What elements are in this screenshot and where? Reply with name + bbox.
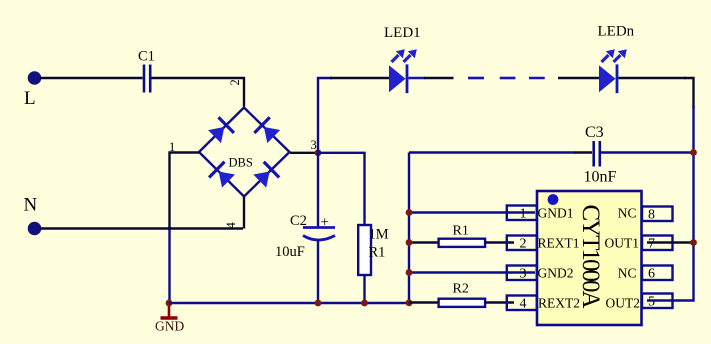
svg-text:C2: C2	[290, 213, 307, 229]
wire R1 to ground rail	[363, 275, 365, 303]
svg-text:NC: NC	[618, 266, 637, 281]
svg-text:C3: C3	[585, 124, 604, 141]
svg-text:+: +	[321, 215, 329, 231]
wire C3 to right bus	[601, 151, 694, 153]
junction bus-pin3	[406, 269, 413, 276]
svg-text:8: 8	[648, 208, 655, 223]
capacitor C2	[303, 228, 335, 241]
diode D-topright of DBS	[254, 117, 281, 144]
junction bus-pin1	[406, 209, 413, 216]
svg-text:3: 3	[311, 138, 317, 152]
pin box 1	[507, 206, 537, 221]
wire L to C1	[40, 77, 143, 79]
junction node 3	[315, 149, 322, 156]
wire R2 to pin 4	[485, 301, 514, 303]
diode D-bottomleft of DBS	[209, 162, 236, 189]
pin box 7	[642, 236, 673, 251]
terminal N	[28, 222, 42, 236]
wire C2 to ground rail	[317, 240, 319, 303]
wire pin 3 row	[409, 271, 535, 273]
wire ground rail	[169, 302, 409, 304]
wire dashed LED string	[468, 77, 545, 80]
svg-text:GND1: GND1	[538, 206, 574, 221]
wire C3 row left	[409, 151, 575, 153]
LED LED1	[389, 49, 417, 93]
capacitor C1	[144, 65, 150, 93]
pin box 8	[642, 207, 673, 222]
pin 1 marker dot	[548, 194, 559, 205]
wire node 3 down to C2	[317, 153, 319, 227]
svg-text:C1: C1	[138, 49, 155, 65]
junction C3-right bus	[690, 149, 697, 156]
junction left bus-ground rail	[406, 299, 413, 306]
svg-text:OUT1: OUT1	[605, 236, 640, 251]
ground GND	[161, 303, 178, 318]
resistor R2 horizontal	[439, 299, 486, 307]
svg-text:OUT2: OUT2	[606, 296, 641, 311]
junction bus-pin2	[406, 239, 413, 246]
junction pin7-right bus	[690, 239, 697, 246]
svg-text:CYT1000A: CYT1000A	[577, 205, 604, 309]
wire bridge pin 3 to node 3	[290, 152, 318, 154]
svg-text:10nF: 10nF	[584, 169, 617, 186]
pin box 3	[507, 266, 537, 281]
pin box 6	[642, 266, 673, 281]
diode D-bottomright of DBS	[252, 162, 279, 189]
svg-text:REXT1: REXT1	[538, 236, 580, 251]
pin box 5	[642, 294, 673, 309]
wire N to bridge pin 4	[40, 227, 243, 229]
wire into C3	[574, 151, 592, 153]
svg-text:6: 6	[648, 267, 655, 282]
wire bridge pin 1 to ground rail	[170, 153, 200, 229]
svg-text:R1: R1	[453, 224, 469, 239]
wire left bus	[408, 153, 410, 304]
junction C2-ground rail	[315, 300, 322, 307]
svg-text:DBS: DBS	[229, 156, 253, 170]
LED LEDn	[599, 49, 627, 93]
wire bus to R1	[409, 241, 440, 243]
svg-text:R2: R2	[453, 282, 469, 297]
svg-text:2: 2	[228, 79, 242, 85]
wire LEDn cathode to right bus	[619, 77, 687, 79]
svg-text:2: 2	[520, 237, 527, 252]
pin box 4	[507, 296, 537, 311]
svg-text:10uF: 10uF	[275, 244, 305, 260]
wire pin 1 row	[409, 211, 535, 213]
junction at GND	[166, 300, 173, 307]
svg-text:5: 5	[648, 295, 655, 310]
svg-text:REXT2: REXT2	[538, 296, 580, 311]
svg-text:1: 1	[520, 207, 527, 222]
wire bus to R2	[409, 301, 440, 303]
svg-text:LEDn: LEDn	[598, 24, 635, 40]
svg-text:7: 7	[648, 237, 655, 252]
svg-text:L: L	[24, 88, 36, 109]
terminal L	[28, 71, 42, 85]
wire to LEDn anode	[558, 77, 599, 79]
capacitor C3	[594, 141, 600, 167]
wire node 3 up to LED string	[318, 78, 332, 153]
wire LED1 cathode	[409, 77, 426, 79]
diode D-topleft of DBS	[207, 117, 234, 144]
svg-text:R1: R1	[369, 245, 386, 261]
IC U1 CYT1000A body	[537, 191, 642, 325]
svg-text:GND: GND	[155, 319, 184, 334]
wire C1 to bridge pin 2	[152, 78, 245, 107]
wire node 3 to R1 top	[318, 153, 365, 225]
resistor R1 horizontal	[439, 239, 486, 247]
svg-text:LED1: LED1	[384, 25, 421, 41]
wire R1 to pin 2	[485, 241, 514, 243]
wire to LED1 anode	[330, 77, 389, 79]
wire right bus	[684, 78, 694, 108]
svg-text:4: 4	[520, 297, 527, 312]
resistor R1 vertical 1M	[358, 225, 371, 275]
svg-text:3: 3	[520, 267, 527, 282]
wire pin 5 to right bus	[647, 299, 673, 301]
wire bridge pin 4 stub	[243, 197, 245, 229]
svg-text:N: N	[24, 195, 38, 216]
pin box 2	[507, 236, 537, 251]
junction R1-ground rail	[361, 300, 368, 307]
svg-text:NC: NC	[618, 206, 637, 221]
bridge rectifier DBS	[199, 108, 290, 197]
svg-text:1M: 1M	[369, 227, 389, 243]
wire pin 7 to right bus	[647, 241, 694, 243]
svg-text:GND2: GND2	[538, 266, 574, 281]
